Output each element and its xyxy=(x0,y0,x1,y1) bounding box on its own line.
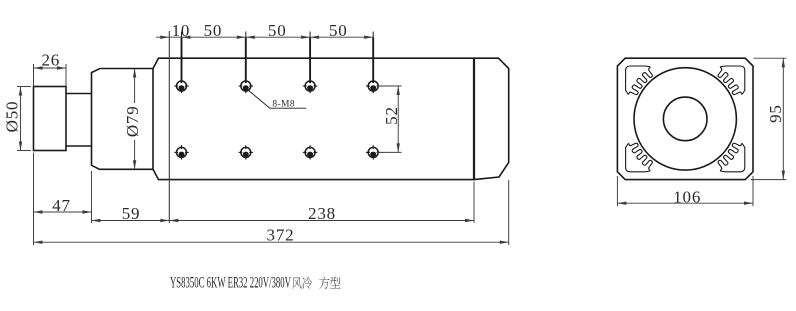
motor housing circle xyxy=(634,68,736,170)
screw hole M8 #6 xyxy=(239,145,253,159)
arrowheads 95 xyxy=(782,58,785,67)
svg-text:372: 372 xyxy=(267,225,295,244)
dimension 47 line xyxy=(34,211,92,213)
caption hanzi fang xyxy=(319,277,329,289)
end-view square flange outline xyxy=(617,58,753,179)
hole column extension line 2 xyxy=(245,32,247,38)
dimension dia79 line xyxy=(134,69,136,170)
svg-text:106: 106 xyxy=(673,188,701,207)
svg-text:8-M8: 8-M8 xyxy=(272,100,295,110)
screw hole M8 #2 xyxy=(239,79,253,93)
svg-text:50: 50 xyxy=(204,21,223,40)
arrowheads 238 xyxy=(169,219,178,222)
dimension 95 line xyxy=(782,58,784,179)
svg-text:52: 52 xyxy=(382,106,401,125)
extension lines bottom xyxy=(33,153,35,246)
svg-text:Ø79: Ø79 xyxy=(123,105,142,137)
screw hole M8 #4 xyxy=(366,79,380,93)
caption hanzi leng xyxy=(302,277,312,289)
shaft bore circle xyxy=(663,97,707,141)
shaft step between nut and flange xyxy=(66,94,92,147)
arrowheads top chain xyxy=(160,36,169,39)
body right edge xyxy=(473,58,475,179)
dimension 106 line xyxy=(617,202,753,204)
main body (spindle housing) xyxy=(153,58,474,179)
screw hole M8 #3 xyxy=(303,79,317,93)
svg-text:26: 26 xyxy=(41,51,60,70)
svg-text:59: 59 xyxy=(122,204,141,223)
dimension 26 line xyxy=(34,67,67,69)
svg-text:Ø50: Ø50 xyxy=(3,101,22,133)
screw hole M8 #7 xyxy=(303,145,317,159)
hole column extension line 1 xyxy=(181,32,183,38)
collet nut (26 wide) xyxy=(34,87,67,151)
caption hanzi feng xyxy=(292,277,302,289)
arrowheads 47 xyxy=(34,210,43,213)
screw hole M8 #1 xyxy=(174,79,188,93)
top dimension chain line (10,50,50,50) xyxy=(156,36,373,38)
arrowheads 26 xyxy=(34,66,43,69)
arrowheads 372 xyxy=(34,241,43,244)
caption hanzi xing xyxy=(330,277,340,288)
dimension 52 leaders and line xyxy=(377,85,402,87)
hole column extension line 3 xyxy=(309,32,311,38)
svg-text:47: 47 xyxy=(52,196,71,215)
dimension dia50 line xyxy=(20,87,22,151)
cooling slot top-right xyxy=(718,66,745,95)
arrowheads 59 xyxy=(92,219,101,222)
dimension 59/238 line xyxy=(92,220,475,222)
arrowheads 106 xyxy=(617,202,626,205)
svg-text:10: 10 xyxy=(172,21,191,40)
leader line 8-M8 xyxy=(248,90,306,108)
screw hole M8 #5 xyxy=(174,145,188,159)
svg-text:50: 50 xyxy=(329,21,348,40)
rear end cap with chamfers xyxy=(474,58,509,179)
svg-text:50: 50 xyxy=(268,21,287,40)
cooling slot bottom-left xyxy=(626,143,653,172)
arrowheads dia50 xyxy=(19,87,22,96)
front flange (dia 79) xyxy=(92,69,154,170)
screw hole M8 #8 xyxy=(366,145,380,159)
svg-text:95: 95 xyxy=(766,104,785,123)
hole column extension line 4 xyxy=(372,32,374,38)
arrowheads 52 xyxy=(397,86,400,95)
dim text dia79 xyxy=(124,103,140,140)
arrowheads dia79 xyxy=(133,69,136,78)
dimension 372 line xyxy=(34,241,509,243)
cooling slot top-left xyxy=(626,66,653,95)
front cap boundary / extension line xyxy=(168,31,170,223)
cooling slot bottom-right xyxy=(718,143,745,172)
svg-text:YS8350C 6KW ER32 220V/380V: YS8350C 6KW ER32 220V/380V xyxy=(170,274,291,291)
svg-text:238: 238 xyxy=(308,204,336,223)
